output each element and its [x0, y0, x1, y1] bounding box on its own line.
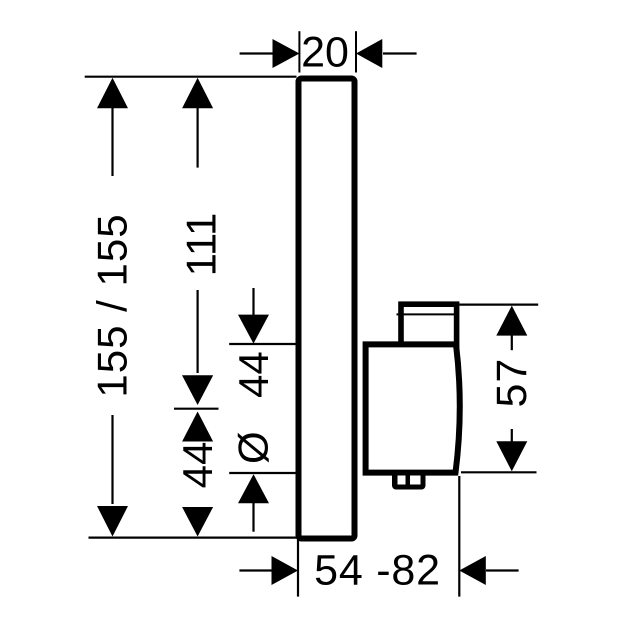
svg-text:155 / 155: 155 / 155: [89, 213, 136, 397]
dim 57 bottom arrowhead: [496, 441, 527, 471]
dim 57 bottom extension line: [461, 471, 537, 473]
tab window right: [410, 476, 421, 485]
dim 111 bottom arrowhead: [182, 375, 213, 405]
svg-text:54 -82: 54 -82: [314, 547, 441, 595]
svg-text:57: 57: [488, 358, 536, 408]
handle centre tick: [174, 408, 219, 410]
dim 111 upper dimension line: [197, 107, 199, 168]
bottom extension line: [89, 536, 297, 538]
dim 54-82 right extension line: [458, 476, 460, 597]
dim 155/155 lower dimension line: [111, 415, 113, 504]
dim 155/155 bottom arrowhead: [97, 506, 128, 537]
dim 155/155 top arrowhead: [97, 78, 128, 109]
svg-text:111: 111: [178, 213, 225, 277]
dim 54-82 right leader line: [486, 569, 519, 571]
dim 20 right extension line: [355, 31, 357, 72]
dim 155/155 upper dimension line: [111, 107, 113, 176]
handle knob (side view): [401, 304, 457, 354]
svg-text:20: 20: [301, 29, 349, 77]
dim 20 right arrowhead: [356, 39, 382, 68]
svg-text:44: 44: [230, 351, 277, 398]
dim 57 top extension line: [459, 304, 538, 306]
dim 111 top arrowhead: [182, 78, 213, 109]
dim 57 lower dimension line: [511, 429, 513, 445]
dim 54-82 left arrowhead: [272, 556, 299, 585]
svg-text:Ø: Ø: [229, 431, 276, 464]
dim 44 (centre) bottom arrowhead: [182, 507, 213, 537]
tab window left: [398, 476, 406, 485]
dim 54-82 right arrowhead: [459, 556, 486, 585]
knob cap parting line: [397, 313, 456, 315]
dim 111 lower dimension line: [197, 290, 199, 373]
dim Ø44 lower tick line: [229, 472, 296, 474]
dim 57 top arrowhead: [496, 306, 527, 336]
valve body (side view): [366, 344, 460, 472]
dim 20 right leader line: [383, 52, 417, 54]
dim 20 left leader line: [240, 52, 273, 54]
svg-text:44: 44: [174, 442, 221, 489]
dim Ø44 upper tick line: [229, 343, 296, 345]
dim 20 left arrowhead: [273, 39, 300, 68]
dim 20 left extension line: [298, 31, 300, 72]
dim Ø44 lower leader line: [252, 501, 254, 532]
dim Ø44 lower arrowhead: [238, 474, 269, 503]
dim Ø44 upper leader line: [252, 288, 254, 318]
dim 54-82 left leader line: [239, 569, 272, 571]
top extension line: [85, 76, 297, 78]
bottom connector tab: [392, 470, 426, 490]
faceplate (escutcheon, side view): [299, 79, 355, 539]
dim 54-82 left extension line: [297, 535, 299, 597]
dim 44 (centre) top arrowhead: [182, 412, 213, 442]
dim Ø44 upper arrowhead: [238, 315, 269, 344]
dim 57 upper dimension line: [511, 334, 513, 350]
